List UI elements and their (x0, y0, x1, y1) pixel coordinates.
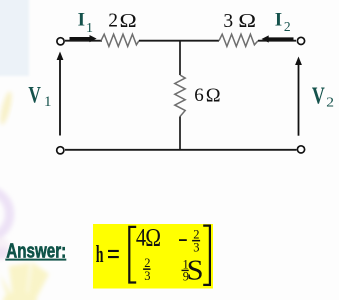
svg-text:1: 1 (44, 94, 52, 110)
label I1 (78, 9, 93, 35)
label V1 (28, 83, 51, 110)
terminal port 1 plus (57, 38, 64, 45)
matrix bracket left (129, 227, 136, 283)
label 3 ohm value (223, 9, 256, 32)
svg-text:V: V (312, 82, 325, 109)
svg-text:I: I (275, 9, 282, 30)
matrix entry h22 one ninth S (182, 256, 204, 287)
voltage arrow V1 (57, 52, 64, 136)
svg-text:Ω: Ω (145, 224, 161, 252)
wire bottom (65, 149, 297, 151)
svg-text:Answer:: Answer: (6, 239, 66, 262)
label I2 (275, 9, 291, 34)
matrix bracket right (203, 226, 210, 285)
matrix entry h12 minus two thirds (179, 228, 200, 255)
svg-text:V: V (28, 83, 41, 108)
voltage arrow V2 (295, 57, 302, 136)
svg-text:2: 2 (326, 96, 334, 111)
svg-text:3: 3 (223, 11, 233, 32)
terminal port 2 minus (297, 146, 304, 153)
wire top-right segment (258, 40, 296, 42)
svg-text:I: I (78, 9, 85, 30)
svg-text:2: 2 (144, 256, 150, 270)
wire top-left segment (65, 40, 102, 42)
resistor R3 6ohm (175, 75, 185, 117)
svg-text:S: S (187, 256, 204, 287)
svg-text:Ω: Ω (206, 85, 221, 107)
svg-text:1: 1 (86, 21, 93, 36)
label 6 ohm value (194, 85, 220, 107)
wire top-middle segment (139, 40, 219, 42)
label V2 (312, 82, 334, 110)
svg-text:2: 2 (108, 10, 118, 31)
svg-text:h: h (96, 243, 104, 269)
svg-text:2: 2 (284, 19, 291, 34)
label Answer (5, 239, 66, 262)
svg-text:Ω: Ω (120, 9, 137, 31)
svg-text:3: 3 (144, 269, 150, 283)
matrix h equals (96, 243, 119, 269)
terminal port 1 minus (57, 147, 64, 154)
current arrow I2 (262, 35, 294, 42)
wire middle branch bottom (179, 117, 181, 151)
matrix entry h11 4 ohm (136, 224, 161, 252)
label 2 ohm value (108, 9, 137, 31)
resistor R2 3ohm (219, 34, 258, 46)
svg-text:3: 3 (193, 240, 199, 254)
answer highlight box (93, 224, 213, 289)
matrix entry h21 two thirds (143, 256, 150, 283)
svg-text:Ω: Ω (238, 9, 256, 32)
current arrow I1 (70, 35, 97, 42)
terminal port 2 plus (297, 37, 304, 44)
resistor R1 2ohm (101, 34, 139, 46)
wire middle branch top (179, 41, 181, 75)
svg-text:6: 6 (194, 85, 204, 106)
